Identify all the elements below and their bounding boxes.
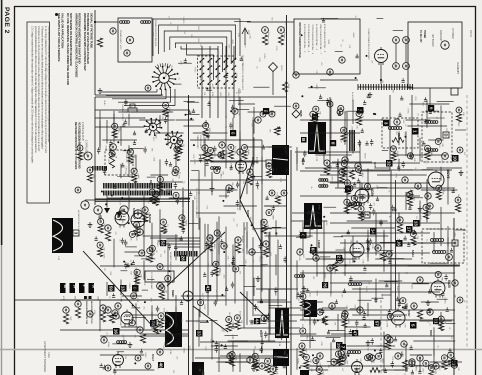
clutter junction 86 bbox=[101, 191, 103, 193]
wire mesh h193 bbox=[347, 220, 388, 222]
part callout extra 31 bbox=[149, 245, 155, 251]
svg-text:IN ALL: IN ALL bbox=[176, 26, 179, 31]
antenna symbol bbox=[242, 28, 248, 34]
wire mesh v4 bbox=[99, 300, 101, 317]
clutter capacitor 126 bbox=[353, 182, 356, 186]
black mark bottom center bbox=[192, 362, 204, 375]
part callout extra 19 bbox=[409, 361, 415, 367]
wire audio h bbox=[330, 264, 460, 266]
clutter junction 39 bbox=[111, 195, 113, 197]
part callout extra 16 bbox=[261, 315, 267, 321]
clutter label 312 bbox=[209, 339, 211, 344]
wire mesh v23 bbox=[143, 316, 145, 330]
clutter junction 432 bbox=[374, 350, 376, 352]
instruction text line 3 bbox=[66, 13, 70, 85]
bl callout 1 bbox=[105, 307, 111, 313]
wire mesh h187 bbox=[264, 205, 286, 207]
part label extra 66 bbox=[103, 224, 105, 230]
resistor RF2 bbox=[455, 204, 460, 212]
wire vertical run 2 bbox=[207, 224, 209, 316]
clutter capacitor 327 bbox=[174, 341, 177, 345]
svg-text:2.2MEG: 2.2MEG bbox=[152, 248, 154, 255]
part label extra 51 bbox=[247, 150, 250, 156]
clutter label 375 bbox=[427, 320, 429, 324]
clutter capacitor 455 bbox=[283, 364, 286, 368]
part callout extra 59 bbox=[313, 357, 319, 363]
wire if low bbox=[190, 179, 286, 181]
grid ref 5x bbox=[410, 322, 417, 329]
clutter capacitor 297 bbox=[428, 289, 431, 293]
clutter wire 539 bbox=[188, 222, 198, 224]
resistor extra 44 bbox=[158, 183, 163, 191]
part callout extra 84 bbox=[232, 108, 238, 114]
svg-text:135V: 135V bbox=[204, 346, 206, 351]
wire mesh v134 bbox=[405, 131, 407, 156]
low callout 4 bbox=[249, 249, 255, 255]
wire long horizontal extra 1 bbox=[335, 187, 455, 189]
wire long vertical bus D bbox=[192, 200, 194, 375]
svg-text:AGC: AGC bbox=[300, 333, 303, 338]
ratio det ref bbox=[443, 132, 449, 138]
svg-text:VIDEO: VIDEO bbox=[218, 269, 220, 275]
scatter capacitor 8 bbox=[182, 227, 185, 234]
clutter wire 418 bbox=[415, 365, 423, 367]
clutter wire 520 bbox=[321, 18, 339, 20]
svg-text:AGC: AGC bbox=[378, 253, 381, 258]
notes text line 6 bbox=[47, 26, 50, 143]
svg-text:9: 9 bbox=[82, 285, 86, 287]
clutter junction 29 bbox=[167, 193, 169, 195]
clutter label 521 bbox=[327, 39, 329, 45]
resistor extra 86 bbox=[357, 117, 362, 125]
part callout extra 11 bbox=[358, 206, 364, 212]
clutter junction 436 bbox=[347, 355, 349, 357]
grid ref bar label 14 bbox=[73, 285, 77, 289]
resistor extra 73 bbox=[313, 113, 318, 121]
wire mesh h244 bbox=[217, 361, 249, 363]
part label extra 31 bbox=[155, 250, 157, 253]
clutter label 416 bbox=[334, 322, 336, 326]
svg-text:AGC: AGC bbox=[438, 367, 441, 372]
notes text line 1 bbox=[31, 26, 34, 164]
clutter label 202 bbox=[241, 237, 243, 244]
additional schematics list 2 bbox=[307, 24, 310, 53]
square column label 5 bbox=[108, 296, 110, 298]
clutter capacitor 239 bbox=[220, 239, 223, 243]
svg-text:1: 1 bbox=[413, 130, 418, 133]
part callout extra 51 bbox=[241, 145, 247, 151]
clutter wire 140 bbox=[359, 189, 372, 191]
clutter label 545 bbox=[156, 240, 158, 247]
part label extra 4 bbox=[343, 111, 345, 115]
clutter label 510 bbox=[320, 62, 322, 66]
connector rail bbox=[358, 86, 413, 88]
scatter capacitor 14 bbox=[168, 243, 171, 250]
connector pin 9 bbox=[378, 84, 380, 90]
resistor extra 98 bbox=[385, 341, 390, 349]
clutter junction 459 bbox=[299, 367, 301, 369]
clutter capacitor 352 bbox=[231, 324, 234, 328]
part label extra 76 bbox=[270, 363, 272, 367]
svg-text:VIDEO: VIDEO bbox=[184, 220, 186, 226]
wire mesh h241 bbox=[100, 354, 144, 356]
svg-text:VERT: VERT bbox=[405, 367, 407, 373]
clutter label 128 bbox=[388, 190, 390, 193]
part label extra 3 bbox=[305, 298, 307, 302]
clutter label 188 bbox=[232, 218, 234, 222]
wire long horizontal extra 13 bbox=[195, 357, 285, 359]
clutter label 412 bbox=[385, 319, 387, 323]
clutter capacitor 157 bbox=[361, 128, 364, 132]
ground low 1 bbox=[256, 276, 261, 281]
label tuner power plug bbox=[367, 28, 369, 61]
clutter label 210 bbox=[218, 234, 220, 241]
svg-text:HORIZ: HORIZ bbox=[241, 237, 243, 244]
clutter capacitor 570 bbox=[140, 349, 143, 353]
label tuning control bbox=[237, 88, 239, 106]
part label extra 45 bbox=[393, 319, 395, 323]
part label extra 25 bbox=[219, 173, 221, 179]
label power transformer bbox=[134, 176, 137, 192]
svg-text:250V: 250V bbox=[121, 219, 123, 224]
clutter wire 382 bbox=[445, 322, 455, 324]
svg-text:10: 10 bbox=[453, 156, 458, 162]
if callout 4 bbox=[255, 117, 261, 123]
wire mesh v136 bbox=[419, 357, 421, 372]
wire mesh v37 bbox=[175, 234, 177, 260]
part label extra 6 bbox=[220, 235, 222, 239]
clutter label 532 bbox=[139, 270, 141, 274]
clutter label 490 bbox=[258, 57, 260, 62]
left low callout 1 bbox=[63, 307, 69, 313]
clutter label 125 bbox=[414, 167, 416, 170]
wire center v 240 bbox=[239, 97, 241, 200]
connector pin 17 bbox=[399, 84, 401, 90]
part label extra 27 bbox=[159, 324, 161, 329]
wire lower feed bbox=[95, 94, 163, 96]
svg-text:2 Resistors are 1/2 watt 10 p: 2 Resistors are 1/2 watt 10 percent tole… bbox=[37, 26, 40, 152]
clutter label 274 bbox=[396, 286, 399, 292]
wire mesh h211 bbox=[379, 280, 403, 282]
clutter label 343 bbox=[122, 334, 124, 338]
clutter label 235 bbox=[305, 289, 307, 294]
wire filament chain bbox=[85, 199, 160, 201]
clutter capacitor 449 bbox=[448, 348, 451, 352]
clutter label 433 bbox=[310, 368, 312, 372]
grid ref extra 52 bbox=[160, 240, 166, 246]
svg-text:AGC: AGC bbox=[308, 293, 311, 298]
resistor extra 5 bbox=[132, 175, 137, 183]
svg-text:1 MEG: 1 MEG bbox=[361, 172, 363, 178]
part label extra 21 bbox=[346, 132, 348, 136]
scatter capacitor 13 bbox=[215, 346, 218, 353]
resistor R45 bbox=[370, 368, 380, 373]
svg-text:VERT: VERT bbox=[358, 251, 360, 257]
clutter capacitor 264 bbox=[404, 236, 407, 240]
wire mesh h245 bbox=[381, 369, 407, 371]
note text extra 1 bbox=[81, 122, 83, 141]
wire vertical run 1 bbox=[199, 218, 201, 318]
grid ref B sq bbox=[301, 137, 307, 143]
clutter label 258 bbox=[411, 284, 414, 290]
wire mesh h169 bbox=[315, 154, 351, 156]
PAGE 2 title bbox=[3, 7, 10, 34]
part callout extra 30 bbox=[266, 163, 272, 169]
wire long horizontal extra 18 bbox=[330, 162, 420, 164]
clutter capacitor 453 bbox=[275, 365, 278, 369]
part label extra 53 bbox=[453, 357, 455, 363]
wire v 412 bbox=[411, 95, 413, 160]
svg-text:VIDEO: VIDEO bbox=[280, 65, 282, 71]
waveform photo W3 bbox=[304, 203, 322, 229]
clutter label 165 bbox=[438, 179, 440, 182]
part callout extra 46 bbox=[115, 214, 121, 220]
part label extra 80 bbox=[182, 144, 184, 147]
scatter capacitor 43 bbox=[252, 174, 255, 181]
wire bundle left 2 bbox=[106, 94, 162, 96]
wire bundle left 4 bbox=[118, 101, 171, 103]
wire mesh v67 bbox=[246, 291, 248, 325]
svg-text:VIDEO: VIDEO bbox=[393, 63, 395, 69]
svg-text:1 MEG: 1 MEG bbox=[219, 173, 221, 179]
clutter label 448 bbox=[268, 362, 270, 366]
svg-text:600K: 600K bbox=[287, 84, 289, 89]
if right callout b bbox=[355, 163, 361, 169]
part label extra 75 bbox=[213, 153, 215, 158]
part label extra 28 bbox=[412, 197, 414, 202]
switch contact r1c3 bbox=[215, 58, 220, 63]
clutter label 478 bbox=[235, 73, 237, 78]
cap callout w1a bbox=[260, 111, 266, 117]
clutter label 492 bbox=[275, 46, 277, 51]
left col label a bbox=[82, 152, 84, 156]
wire mesh v62 bbox=[239, 138, 241, 156]
wire mesh h178 bbox=[377, 174, 427, 176]
clutter label 130 bbox=[354, 118, 356, 122]
clutter capacitor 55 bbox=[150, 121, 153, 125]
low label 2 bbox=[241, 248, 243, 253]
clutter label 500 bbox=[283, 26, 285, 31]
clutter label 311 bbox=[117, 308, 119, 314]
wire mesh v131 bbox=[398, 272, 400, 307]
part callout extra 40 bbox=[142, 207, 148, 213]
wire mesh v60 bbox=[232, 342, 234, 372]
coil L4 bbox=[319, 179, 328, 182]
instruction text line 4 bbox=[69, 13, 73, 66]
grid ref extra 3 bbox=[383, 120, 389, 126]
tone amp text bbox=[150, 272, 153, 290]
grid ref 11b bbox=[451, 360, 458, 367]
part label extra 10 bbox=[231, 322, 233, 327]
clutter wire 566 bbox=[147, 279, 154, 281]
part callout extra 10 bbox=[226, 316, 232, 322]
wire long horizontal extra 14 bbox=[310, 365, 450, 367]
waveform left scale bbox=[57, 256, 59, 261]
tube designator 6X8 bbox=[149, 180, 153, 185]
part callout extra 25 bbox=[214, 167, 220, 173]
svg-text:SYNC: SYNC bbox=[203, 305, 205, 311]
resistor R22 bbox=[397, 224, 402, 233]
clutter label 411 bbox=[383, 345, 385, 350]
clutter capacitor 409 bbox=[427, 308, 430, 312]
wire mesh v95 bbox=[316, 118, 318, 133]
clutter label 315 bbox=[254, 346, 256, 350]
clutter wire 263 bbox=[387, 258, 404, 260]
part callout extra 21 bbox=[341, 127, 347, 133]
svg-text:135V: 135V bbox=[340, 293, 342, 298]
clutter wire 203 bbox=[249, 252, 266, 254]
grid ref bl2 bbox=[158, 362, 164, 368]
wire mesh v124 bbox=[383, 230, 385, 248]
clutter label 402 bbox=[385, 323, 387, 329]
callout interlock bbox=[110, 144, 117, 151]
svg-text:THERMAL CUTOUT: THERMAL CUTOUT bbox=[77, 128, 80, 147]
low callout 6 bbox=[297, 249, 303, 255]
svg-text:120K: 120K bbox=[340, 130, 342, 135]
clutter junction 335 bbox=[206, 320, 208, 322]
connector pin 1 bbox=[357, 84, 359, 90]
if label 1 bbox=[207, 150, 209, 154]
tone callout b bbox=[183, 291, 193, 301]
part callout extra 94 bbox=[179, 215, 185, 221]
square column label 4 bbox=[97, 296, 99, 300]
clutter junction 233 bbox=[311, 244, 313, 246]
clutter capacitor 384 bbox=[398, 301, 401, 305]
clutter label 576 bbox=[124, 356, 126, 360]
callout C2 cap bbox=[262, 27, 269, 34]
resistor RF1 bbox=[456, 114, 461, 122]
clutter capacitor 225 bbox=[306, 288, 309, 292]
clutter wire 388 bbox=[350, 308, 360, 310]
part label extra 5 bbox=[137, 173, 139, 177]
wire mesh v97 bbox=[316, 252, 318, 277]
clutter junction 190 bbox=[312, 253, 314, 255]
switch column label 2 bbox=[211, 92, 213, 97]
wire mesh v10 bbox=[113, 111, 115, 128]
clutter wire 358 bbox=[107, 314, 117, 316]
wire mesh h172 bbox=[211, 161, 259, 163]
clutter label 321 bbox=[188, 346, 190, 351]
resistor extra 60 bbox=[304, 361, 309, 369]
clutter label 524 bbox=[341, 39, 343, 42]
resistor extra 100 bbox=[262, 226, 267, 234]
clutter label 141 bbox=[340, 130, 342, 135]
part callout extra 3 bbox=[300, 293, 306, 299]
clutter junction 364 bbox=[176, 324, 178, 326]
part callout extra 71 bbox=[229, 352, 235, 358]
svg-text:2.2MEG: 2.2MEG bbox=[182, 17, 184, 24]
clutter wire 113 bbox=[407, 197, 423, 199]
bullet note adjusted bbox=[90, 301, 93, 324]
clutter label 184 bbox=[244, 259, 246, 264]
clutter label 504 bbox=[381, 80, 383, 84]
scatter capacitor 61 bbox=[164, 340, 167, 347]
clutter label 575 bbox=[147, 362, 149, 366]
svg-text:VERT: VERT bbox=[135, 325, 137, 331]
clutter junction 475 bbox=[235, 76, 237, 78]
label B+ boost bbox=[351, 92, 353, 102]
wire mesh h201 bbox=[394, 242, 436, 244]
wire mesh v17 bbox=[135, 271, 137, 296]
wire mesh v7 bbox=[106, 282, 108, 296]
clutter wire 555 bbox=[131, 220, 149, 222]
part callout extra 35 bbox=[441, 355, 447, 361]
part callout extra 57 bbox=[174, 146, 180, 152]
wire top vertical bbox=[94, 10, 96, 95]
clutter label 36 bbox=[124, 171, 126, 175]
wire mesh h225 bbox=[125, 314, 158, 316]
wire mesh v108 bbox=[344, 111, 346, 145]
clutter label 156 bbox=[414, 96, 416, 101]
svg-text:135V: 135V bbox=[107, 159, 109, 164]
svg-text:2.2MEG: 2.2MEG bbox=[218, 234, 220, 241]
loop wire label 1 bbox=[169, 22, 171, 25]
part label extra 89 bbox=[441, 277, 443, 282]
scatter capacitor 62 bbox=[358, 140, 361, 147]
wire mesh h247 bbox=[308, 369, 328, 371]
clutter capacitor 428 bbox=[229, 356, 232, 360]
tuner socket note 3 bbox=[202, 135, 205, 155]
callout right top b bbox=[327, 69, 333, 75]
wire mesh v28 bbox=[159, 175, 161, 196]
svg-text:100K: 100K bbox=[231, 334, 233, 339]
clutter capacitor 16 bbox=[124, 119, 127, 123]
resistor extra 29 bbox=[411, 237, 416, 245]
part callout extra 76 bbox=[265, 358, 271, 364]
wire mesh v61 bbox=[232, 118, 234, 135]
clutter label 350 bbox=[231, 334, 233, 339]
clutter label 13 bbox=[192, 154, 194, 159]
wire mesh v35 bbox=[175, 295, 177, 316]
wire fr 2 bbox=[455, 229, 466, 231]
wire mesh v101 bbox=[330, 99, 332, 140]
resistor extra 88 bbox=[159, 291, 164, 299]
clutter label 3 bbox=[210, 148, 212, 152]
diagonal leader 3 bbox=[240, 292, 269, 320]
left column part b bbox=[87, 167, 93, 173]
wire sound h1 bbox=[360, 169, 452, 171]
part label extra 54 bbox=[405, 303, 407, 307]
svg-text:AGC: AGC bbox=[259, 235, 262, 240]
wire bundle right 2 bbox=[158, 240, 200, 242]
wire vertical run 4 bbox=[225, 227, 227, 306]
clutter capacitor 99 bbox=[429, 109, 432, 113]
clutter label 376 bbox=[301, 323, 303, 328]
wire mesh h192 bbox=[292, 220, 328, 222]
svg-text:FILAMENTS: FILAMENTS bbox=[456, 62, 459, 75]
switch contact r4c4 bbox=[223, 80, 228, 85]
transistor V2 mixer bbox=[375, 47, 388, 65]
svg-text:VIDEO: VIDEO bbox=[364, 153, 366, 159]
svg-text:20V AC: 20V AC bbox=[469, 30, 472, 38]
part label extra 34 bbox=[140, 274, 142, 278]
clutter capacitor 33 bbox=[169, 162, 172, 166]
wire mesh v111 bbox=[352, 236, 354, 263]
clutter wire 201 bbox=[239, 264, 246, 266]
clutter label 528 bbox=[130, 237, 132, 241]
wire long horizontal extra 12 bbox=[200, 341, 290, 343]
tube V7 6CY5 bbox=[428, 170, 450, 191]
clutter capacitor 215 bbox=[206, 289, 209, 293]
svg-text:120K: 120K bbox=[248, 34, 250, 39]
part callout extra 72 bbox=[266, 210, 272, 216]
clutter label 295 bbox=[342, 247, 344, 250]
wire mesh v8 bbox=[113, 239, 115, 268]
resistor R33 bbox=[105, 232, 110, 241]
thermal cutout device bbox=[84, 152, 92, 160]
wire mesh h185 bbox=[169, 197, 191, 199]
wire socket drop 1 bbox=[156, 89, 158, 92]
